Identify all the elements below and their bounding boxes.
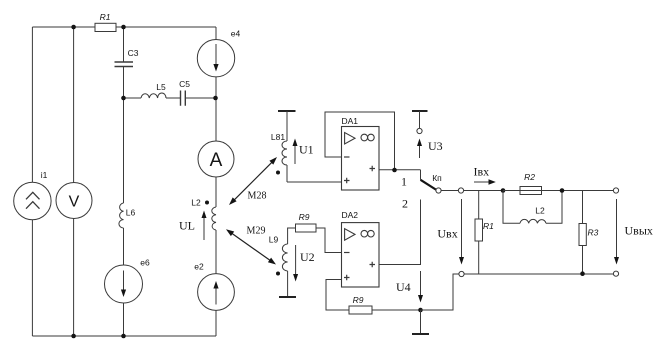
inductor L2 right parallel branch <box>503 191 520 224</box>
inductor L81 (coupled) <box>286 111 288 141</box>
dot L9 polarity <box>276 272 280 276</box>
svg-text:R2: R2 <box>524 172 535 182</box>
wire DA1 output to switch <box>379 170 421 180</box>
wire V branch <box>73 27 75 336</box>
node U4 junction <box>418 308 423 313</box>
svg-text:L2: L2 <box>535 206 545 216</box>
wire R2 <box>503 190 562 192</box>
node DA1 output junction <box>392 168 397 173</box>
svg-text:R9: R9 <box>353 295 364 305</box>
wire output bottom <box>464 273 613 275</box>
dot L81 polarity <box>276 171 280 175</box>
svg-text:L9: L9 <box>269 235 279 245</box>
svg-text:R1: R1 <box>483 221 494 231</box>
terminal input bottom <box>459 271 464 276</box>
wire e4 branch <box>215 27 217 98</box>
svg-text:C5: C5 <box>179 79 190 89</box>
resistor R1 <box>95 23 116 31</box>
svg-text:R9: R9 <box>299 212 310 222</box>
arrow M29 (mutual coupling) <box>231 233 271 261</box>
wire U4 node to input terminal <box>421 274 459 310</box>
wire left vertical (i1 branch) <box>31 27 33 336</box>
resistor R1 right <box>478 191 480 275</box>
inductor L5 <box>141 93 166 98</box>
resistor R9 upper <box>296 224 317 232</box>
switch Kp blade <box>421 180 437 190</box>
node R3 bottom junction <box>580 271 585 276</box>
svg-text:A: A <box>210 150 223 171</box>
wire R9 lower to node <box>372 309 421 311</box>
wire input top <box>464 190 614 192</box>
terminal output bottom right <box>613 271 618 276</box>
op-amp DA2 <box>342 223 380 287</box>
svg-text:U2: U2 <box>300 250 315 264</box>
svg-text:U1: U1 <box>299 143 314 157</box>
current source i1 <box>14 182 51 219</box>
switch contact terminals <box>436 188 441 193</box>
svg-text:DA2: DA2 <box>342 210 359 220</box>
wire C3/L6 branch <box>123 27 125 336</box>
svg-text:R3: R3 <box>588 228 599 238</box>
inductor L6 <box>119 203 124 228</box>
svg-text:Кп: Кп <box>432 173 442 183</box>
arrow Uvyx <box>616 199 618 258</box>
voltmeter V <box>56 183 92 219</box>
arrow U2 <box>295 245 297 275</box>
terminal bar L9 bottom <box>287 271 289 297</box>
capacitor C3 <box>115 62 134 67</box>
svg-text:Uвых: Uвых <box>625 223 653 237</box>
arrow UL <box>203 217 205 240</box>
resistor R3 <box>582 191 584 274</box>
svg-text:U3: U3 <box>428 139 443 153</box>
arrow Uvx <box>461 199 463 258</box>
arrow U1 <box>294 145 296 164</box>
svg-text:2: 2 <box>402 196 408 210</box>
wire between switch terminals <box>441 190 458 192</box>
wire DA1 feedback loop <box>325 112 395 170</box>
wire DA2 output up to switch contact 2 <box>379 200 421 265</box>
svg-text:M28: M28 <box>248 191 267 202</box>
inductor L2 (coupled) <box>212 207 216 230</box>
inductor L9 (coupled) <box>282 244 287 271</box>
op-amp DA1 <box>342 127 380 191</box>
arrow Ivx <box>474 181 489 183</box>
wire top bus <box>32 26 216 28</box>
terminal bar U4 ground <box>420 310 422 334</box>
svg-text:L5: L5 <box>156 82 166 92</box>
arrow M28 (mutual coupling) <box>233 161 273 201</box>
wire A/L2/e2 branch <box>215 98 217 336</box>
capacitor C5 <box>181 91 186 106</box>
svg-text:U4: U4 <box>396 280 411 294</box>
svg-text:Uвх: Uвх <box>437 227 457 241</box>
svg-text:DA1: DA1 <box>342 116 359 126</box>
source e6 <box>105 265 143 303</box>
dot L2 polarity <box>205 201 209 205</box>
node R2 left junction <box>501 188 506 193</box>
node R2 right junction <box>560 188 565 193</box>
svg-text:L6: L6 <box>126 208 136 218</box>
svg-text:UL: UL <box>179 219 195 233</box>
svg-text:L2: L2 <box>191 198 201 208</box>
wire L9 to R9 to DA2 minus <box>288 228 342 253</box>
svg-text:e2: e2 <box>194 262 204 272</box>
terminal U3 <box>412 110 428 112</box>
arrow U3 <box>419 145 421 158</box>
svg-text:C3: C3 <box>128 48 139 58</box>
terminal bar L81 top <box>278 110 296 112</box>
svg-text:M29: M29 <box>247 226 266 237</box>
arrow U4 <box>420 271 422 296</box>
svg-text:1: 1 <box>401 174 407 188</box>
svg-text:e6: e6 <box>140 258 150 268</box>
ammeter A <box>198 141 234 177</box>
wire DA2 plus input feedback <box>326 280 349 311</box>
svg-text:e4: e4 <box>231 29 241 39</box>
svg-text:i1: i1 <box>41 170 48 180</box>
source e2 <box>198 274 235 311</box>
resistor R2 <box>520 187 542 195</box>
junction dots left circuit <box>71 25 76 30</box>
svg-text:R1: R1 <box>100 12 111 22</box>
wire bottom bus <box>32 335 216 337</box>
terminal output top right <box>613 188 618 193</box>
wire L5-C5 row <box>124 97 216 99</box>
svg-text:Iвх: Iвх <box>474 164 490 178</box>
svg-text:L81: L81 <box>271 132 285 142</box>
resistor R9 lower <box>349 306 372 314</box>
source e4 <box>197 40 234 77</box>
svg-text:V: V <box>69 193 80 210</box>
